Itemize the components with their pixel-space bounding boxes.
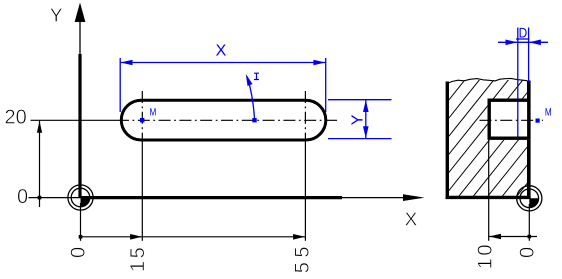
blue ref dot I pivot [252,118,256,122]
svg-text:Y: Y [50,6,63,27]
svg-text:X: X [405,209,418,230]
Y dimension line (blue) [365,100,367,139]
dim 0 dot [38,196,42,200]
Y axis arrowhead [75,3,86,23]
slot outline [121,100,325,140]
bottom dimension arrow at 55 [293,234,305,240]
svg-text:M: M [150,107,157,119]
X dimension extension line right (blue) [325,58,327,112]
dim 20 vertical line [39,121,41,208]
bottom dimension extension 10 (right view) [488,140,490,241]
Y dimension extension line top (blue) [328,99,392,101]
Y dimension arrow top [363,100,369,112]
workpiece block right edge [527,81,531,200]
Y axis thin [79,21,81,54]
D dimension arrow right [529,40,541,46]
workpiece block top break line (wavy) [446,78,528,83]
slot cross-section rectangle outline [489,100,529,138]
D label underline [516,38,530,40]
right view centerline dash-dot [480,119,544,121]
slot left arc center vertical dash-dot [141,91,143,142]
X dimension arrow left [121,60,133,66]
D dimension arrow left [506,40,518,46]
slot left arc center extension line [141,142,143,241]
workpiece block bottom edge [446,196,531,199]
slot centerline dash-dot [117,119,338,121]
svg-text:0: 0 [517,247,539,258]
X axis thin [342,197,421,199]
right view hatching [368,77,562,201]
I label [254,73,259,79]
workpiece block left edge [446,82,449,200]
D extension line left (blue) [517,28,519,140]
Y axis thick [78,54,81,198]
svg-text:0: 0 [68,247,90,258]
bottom dimension dot at origin [79,235,83,239]
blue ref dot M right view [536,119,540,123]
slot centerline solid part from 20 label [31,119,118,121]
slot cross-section rectangle fill [488,99,531,140]
bottom dimension line left view [81,236,305,238]
dim 20 arrow up [37,121,42,133]
svg-text:20: 20 [5,107,27,129]
D dimension line (blue) [498,41,548,43]
bottom dimension origin extension [80,203,82,241]
origin symbol right filled quadrant [529,198,538,207]
Y dimension extension line bottom (blue) [328,138,392,140]
bottom dimension dot right view [528,235,532,239]
X axis thick [81,196,342,199]
blue ref dot M left view [140,118,144,122]
X dimension line (blue) [120,62,326,64]
origin symbol left outer circle [68,185,93,210]
slot right arc center extension line [304,142,306,241]
X dimension arrow right [313,60,325,66]
D extension line right (blue) [528,28,530,83]
origin symbol right inner circle [520,189,539,208]
svg-text:Y: Y [350,114,367,125]
svg-text:D: D [519,24,528,40]
bottom dimension extension 0 (right view) [528,204,530,241]
I angle arrow curve [247,77,255,119]
I angle arrowhead [246,74,253,86]
X dimension extension line left (blue) [119,58,121,112]
svg-text:M: M [545,107,552,119]
bottom dimension arrow at 15 [130,234,142,240]
X axis arrowhead [403,194,425,201]
svg-text:15: 15 [127,245,149,272]
bottom dimension line right view [489,236,537,238]
svg-text:X: X [216,43,227,60]
origin symbol right outer circle [517,186,542,211]
svg-text:55: 55 [292,242,314,273]
origin symbol left filled quadrant [81,198,90,207]
slot right arc center vertical dash-dot [304,91,306,142]
origin symbol left inner circle [71,188,90,207]
bottom dimension arrow at 10 [489,234,501,240]
dim 0 horizontal line [29,197,82,199]
Y dimension arrow bottom [363,126,369,138]
svg-text:0: 0 [17,186,28,208]
svg-text:10: 10 [475,242,497,269]
